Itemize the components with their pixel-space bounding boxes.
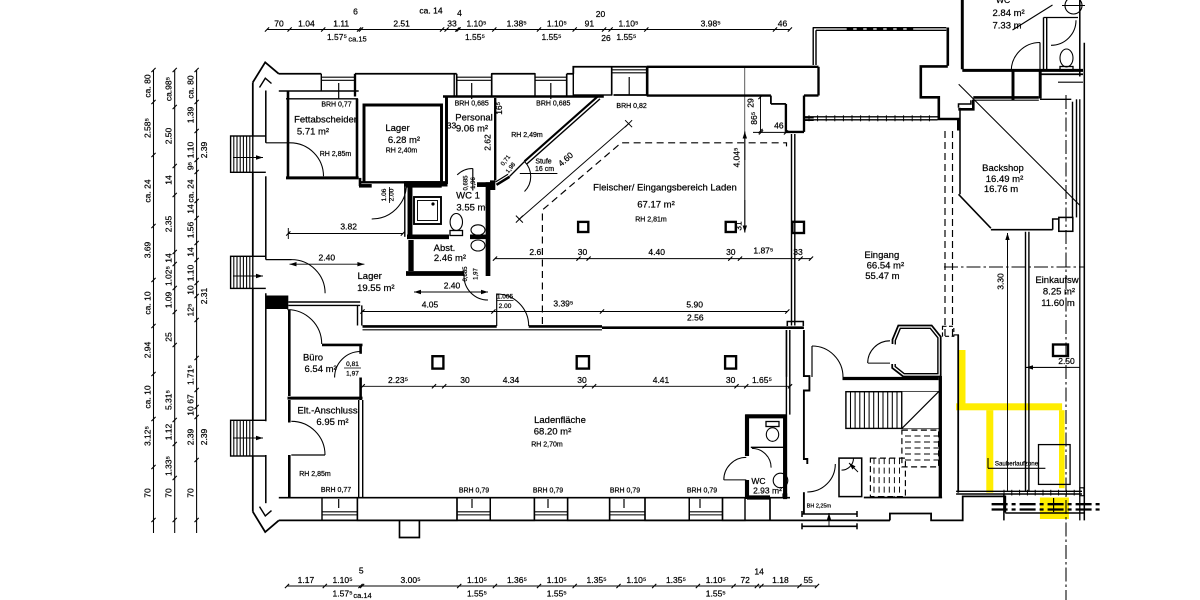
svg-text:72: 72 [740,575,750,585]
top wall inner face (Personal) [443,95,604,98]
Backshop bottom wall [991,229,1053,231]
svg-text:ca. 14: ca. 14 [419,6,442,16]
divider door (1.00/2.00) [496,294,498,327]
vestibule arrow [849,463,858,472]
courtyard right pier [947,28,950,66]
svg-text:3.82: 3.82 [340,222,357,232]
svg-text:86⁵: 86⁵ [749,112,759,125]
diagonal room east wall [494,98,496,180]
svg-text:1.65⁵: 1.65⁵ [752,375,772,385]
WC sink [773,473,788,488]
bay door [868,362,890,364]
svg-text:1.39: 1.39 [186,106,196,123]
dim 2.40 (Abst) [414,291,451,293]
strip wall (double) [1025,232,1027,491]
small column near Einkaufs strip [1053,345,1068,357]
bottom windows glazing [322,511,357,513]
svg-text:1.10: 1.10 [186,264,196,281]
window W0 glazing [321,76,355,78]
dash-dot vertical x1066 [1065,95,1067,600]
svg-text:1.55⁵: 1.55⁵ [465,32,485,42]
bottom dimension chain [287,585,817,587]
vestibule door arc [842,458,854,470]
wall pier solid [267,296,289,310]
Personal door leaf and arc [472,169,474,191]
svg-text:WC: WC [996,0,1010,5]
svg-text:ca. 80: ca. 80 [143,74,153,97]
svg-text:6.28 m²: 6.28 m² [388,135,420,146]
WC 2.84 stall door arc [1051,20,1076,45]
svg-text:Fettabscheider: Fettabscheider [294,115,357,126]
svg-text:9⁵: 9⁵ [186,162,196,170]
Ladenflaeche west wall (double) [358,400,360,498]
svg-text:Sauberlaufzone: Sauberlaufzone [995,461,1039,468]
svg-text:7.33 m: 7.33 m [993,21,1022,32]
svg-text:Lager: Lager [358,271,382,282]
svg-text:1.02⁵: 1.02⁵ [164,266,174,286]
svg-text:Personal: Personal [455,113,493,124]
stair flight left 2 [231,256,253,288]
Abst door [464,276,488,300]
svg-text:67: 67 [186,394,196,404]
outer wall: left facade outer line [252,82,254,136]
svg-text:5: 5 [359,566,364,576]
toilet top right [1060,49,1073,67]
svg-text:2.50: 2.50 [1058,356,1075,366]
svg-text:1,97: 1,97 [474,268,480,280]
door arc left wall 2 (Lager 19.55) [266,259,292,261]
stair hall west pier right edge [804,330,810,464]
svg-text:BRH 0,79: BRH 0,79 [459,488,489,495]
svg-text:BRH 0,79: BRH 0,79 [687,488,717,495]
corridor south wall (double) [288,301,360,303]
courtyard bottom glazed line [805,116,938,118]
chimney protrusion [400,520,420,537]
outer wall: left facade inner line [265,91,267,143]
svg-text:12⁵: 12⁵ [186,304,196,317]
WC 2.93 walls [745,415,749,456]
dim 2.50 [1026,366,1070,368]
corridor wall with Lager door opening [359,184,372,188]
svg-text:RH 2,70m: RH 2,70m [531,442,563,449]
top wall outer face [279,73,322,75]
svg-text:1.04: 1.04 [298,19,315,29]
divider wall end bump [787,322,803,327]
svg-text:BRH 0,685: BRH 0,685 [455,101,489,108]
svg-text:14: 14 [164,253,174,263]
svg-text:BRH 0,685: BRH 0,685 [536,101,570,108]
svg-text:RH 2,49m: RH 2,49m [511,132,543,139]
bottom wall outer face [279,519,890,521]
svg-text:1.11: 1.11 [333,19,349,29]
svg-text:1.10⁵: 1.10⁵ [618,19,638,29]
WC partition [751,446,785,448]
svg-text:ca. 10: ca. 10 [143,291,153,314]
svg-text:BH 2,25m: BH 2,25m [807,504,832,510]
Lager 6.28 room box [364,105,442,182]
svg-text:RH 2,40m: RH 2,40m [386,148,418,155]
svg-text:3.98⁵: 3.98⁵ [701,19,721,29]
Backshop left wall w/ step [959,100,971,108]
vertical dim 4.04 [744,132,746,161]
BRH 0,79 labels [471,499,473,508]
svg-text:1.10⁵: 1.10⁵ [333,575,353,585]
bay dashed square [943,326,954,336]
svg-text:10: 10 [186,285,196,295]
WC 2.84 room bottom wall [962,69,1083,72]
top wall raised section [573,67,646,74]
svg-text:14: 14 [186,204,196,214]
svg-text:91: 91 [585,19,595,29]
vestibule small room [839,458,862,497]
Backshop bottom notch [1053,219,1059,230]
svg-text:1.55⁵: 1.55⁵ [616,32,636,42]
Elt west wall [288,400,291,423]
BRH 0,82 window label C [628,77,630,95]
measure line 4.60 with X ends [519,124,628,219]
connector wall Fettabscheider corner [359,178,362,186]
svg-text:WC: WC [751,476,765,486]
svg-text:20: 20 [596,9,606,19]
svg-text:70: 70 [143,488,153,498]
svg-text:5.71 m²: 5.71 m² [297,127,329,138]
svg-text:6.54 m²: 6.54 m² [304,364,336,375]
svg-text:1.10: 1.10 [186,141,196,158]
dim 86.5 [760,96,762,133]
door arc left wall 1 (Fettabscheider) [266,142,290,144]
svg-text:3.69: 3.69 [143,241,153,258]
Backshop top wall [973,96,1039,99]
svg-text:1.55⁵: 1.55⁵ [467,589,487,599]
left dimension chain 2 [174,70,176,533]
diagonal wall (double line) [525,96,598,161]
WC 2.84 partition wall (double) [1043,18,1045,71]
ticked glazed line SE [1003,490,1005,496]
svg-text:4.34: 4.34 [503,375,520,385]
svg-text:1.55⁵: 1.55⁵ [547,589,567,599]
Sauberlaufzone box [1039,445,1071,485]
SE outline steps [769,498,771,521]
svg-text:1.18: 1.18 [772,575,789,585]
svg-text:2.6: 2.6 [529,247,541,257]
svg-text:2.62: 2.62 [483,134,493,151]
svg-text:ca. 10: ca. 10 [143,385,153,408]
svg-text:1.71⁵: 1.71⁵ [186,365,196,385]
svg-text:70: 70 [186,488,196,498]
svg-text:1.10⁵: 1.10⁵ [706,575,726,585]
column C3 [792,222,804,233]
svg-text:3.39⁵: 3.39⁵ [553,298,573,308]
wall below lower door [803,492,805,514]
window WC glazing (raised) [612,69,647,71]
svg-text:ca. 24: ca. 24 [186,179,196,202]
dashed boundary line [542,143,786,324]
svg-text:3.55 m²: 3.55 m² [456,203,488,214]
svg-text:5.90: 5.90 [686,300,703,310]
outer wall: top-left chamfer [253,62,279,82]
window WA glazing [457,76,492,78]
svg-text:1.56: 1.56 [186,221,196,238]
stairwell top wall [843,377,939,380]
Backshop right wall (double) [1072,102,1074,218]
Sauberlaufzone label [987,458,989,468]
door in diagonal wall [497,177,510,185]
svg-text:ca. 24: ca. 24 [143,179,153,202]
svg-text:1.12: 1.12 [164,423,174,440]
svg-text:14: 14 [164,175,174,185]
top wall right section (hollow outline) [647,66,819,68]
rails dash-dot lines [992,503,1100,505]
Lager 6.28 door arc [372,184,407,219]
Personal west wall [445,97,448,185]
Fleischer east wall [791,134,793,326]
svg-text:RH 2,81m: RH 2,81m [635,217,667,224]
Ladenflaeche west wall upper (double) [357,305,359,325]
svg-text:0,81: 0,81 [346,361,359,368]
svg-text:BRH 0,82: BRH 0,82 [616,103,646,110]
svg-text:2.39: 2.39 [186,428,196,445]
BRH 0,77 bottom window label [338,499,340,508]
right building west wall [961,0,964,69]
svg-text:55.47 m: 55.47 m [865,271,899,282]
svg-text:1,97: 1,97 [346,371,359,378]
svg-text:1.55⁵: 1.55⁵ [706,589,726,599]
WC 2.84 door arc lower [1039,43,1041,72]
svg-text:6.95 m²: 6.95 m² [316,417,348,428]
svg-text:0,685: 0,685 [463,175,469,191]
svg-text:1.35⁵: 1.35⁵ [587,575,607,585]
svg-text:BRH 0,77: BRH 0,77 [321,487,351,494]
yellow highlight: vertical under dash-dot [1059,410,1065,488]
svg-text:Stufe: Stufe [535,159,551,166]
WC1 walls [408,184,413,239]
svg-text:2.93 m²: 2.93 m² [753,486,782,496]
svg-text:33: 33 [447,121,457,131]
svg-text:25: 25 [164,332,174,342]
svg-text:RH 2,85m: RH 2,85m [299,471,331,478]
svg-text:2.35: 2.35 [164,215,174,232]
window WB glazing [535,76,567,78]
svg-text:33: 33 [447,19,457,29]
door bottom-left of stairwell [807,464,835,492]
Buero door from lobby [287,310,321,344]
BRH 0,77 window label [338,83,340,99]
svg-text:1.06: 1.06 [381,188,388,201]
svg-text:1.10⁵: 1.10⁵ [547,575,567,585]
svg-text:0,685: 0,685 [463,266,469,282]
stair upper flight [846,392,939,429]
left dimension chain 1 [153,70,155,533]
WC1 sink [471,225,485,235]
L-pier below WC [1012,71,1015,100]
svg-text:ca.15: ca.15 [348,35,366,44]
svg-text:1.33⁵: 1.33⁵ [164,456,174,476]
Fettabscheider room walls [287,91,290,177]
column C2 [726,222,736,232]
svg-text:ca. 80: ca. 80 [186,75,196,98]
svg-text:14: 14 [186,247,196,257]
door top-left of stairwell [811,346,813,377]
bay outline inner [895,328,938,373]
svg-text:Lager: Lager [385,123,409,134]
svg-text:Einkaufsw: Einkaufsw [1035,275,1078,286]
svg-text:70: 70 [164,488,174,498]
door arc left wall 3 (Elt.-Anschluss) [291,454,325,456]
svg-text:16 cm: 16 cm [535,166,554,173]
raised pier box [573,67,611,95]
chain Fleischer y259 [495,258,811,260]
svg-text:1.35⁵: 1.35⁵ [666,575,686,585]
svg-text:Fleischer/ Eingangsbereich Lad: Fleischer/ Eingangsbereich Laden [593,183,737,194]
courtyard left wall [812,28,814,65]
Buero walls [288,310,291,396]
svg-text:RH 2,85m: RH 2,85m [320,151,352,158]
svg-text:BRH 0,79: BRH 0,79 [533,488,563,495]
svg-text:2.40: 2.40 [444,281,461,291]
svg-text:4: 4 [457,8,462,18]
left dimension chain 3 [196,70,198,533]
chain y311 [363,311,788,313]
top dimension chain [267,29,790,31]
yellow highlight: vertical bar mid [986,410,993,492]
svg-text:1,96: 1,96 [471,177,477,189]
svg-text:55: 55 [803,575,813,585]
svg-text:4.04⁵: 4.04⁵ [732,147,742,167]
bay outline outer [892,326,941,377]
svg-text:8.25 m²: 8.25 m² [1043,287,1075,298]
WC entry door [724,479,747,481]
bottom wall pier boxes [357,498,457,521]
dashed double verticals (Backshop west) [944,131,946,336]
dim 46 [753,131,786,133]
columns row 2 [432,356,443,368]
svg-text:1.57⁵: 1.57⁵ [333,589,353,599]
column C1 [578,222,588,232]
Abst sink [471,240,485,251]
stair flight left 1 [231,136,253,172]
stair hall west pier left edge [786,330,788,377]
svg-text:4.05: 4.05 [422,299,439,309]
stairwell right wall [939,376,942,498]
svg-text:2.50: 2.50 [164,127,174,144]
svg-text:1.005: 1.005 [497,294,514,301]
svg-text:66.54 m²: 66.54 m² [867,261,905,272]
svg-text:BRH 0,79: BRH 0,79 [610,488,640,495]
svg-text:2.23⁵: 2.23⁵ [388,375,408,385]
svg-text:2.00: 2.00 [499,303,512,310]
svg-text:Ladenfläche: Ladenfläche [534,415,586,426]
yellow highlight: vertical line right of stair bay [959,350,966,410]
WC1 shower [414,197,441,224]
svg-text:2.46 m²: 2.46 m² [434,253,466,264]
svg-text:1.17: 1.17 [298,575,315,585]
svg-text:30: 30 [578,247,588,257]
WC toilet [766,428,778,442]
svg-text:11.60 m: 11.60 m [1041,298,1075,309]
yellow highlight: horizontal bar [956,403,1062,410]
circle column symbol [1065,0,1082,14]
svg-text:WC 1: WC 1 [456,191,480,202]
entry threshold [802,513,857,515]
stair cut diagonal [902,392,939,429]
dim 2.40 (Lager19.55) [290,263,326,265]
svg-text:ca.98⁵: ca.98⁵ [164,77,174,101]
BRH 0,685 window label A [471,83,473,99]
dim 3.30 vertical [1007,233,1009,260]
svg-text:Elt.-Anschluss: Elt.-Anschluss [297,406,357,417]
svg-text:Backshop: Backshop [982,163,1024,174]
svg-text:BRH 0,77: BRH 0,77 [321,102,351,109]
svg-text:30: 30 [460,375,470,385]
svg-text:29: 29 [746,98,756,108]
right facade top [1079,0,1081,77]
Backshop chamfer [959,194,991,228]
dash-dot horizontal y267 [944,266,1085,268]
WC inner door [752,448,771,467]
wall down from glazed line [1003,494,1005,520]
svg-text:1.10⁵: 1.10⁵ [547,19,567,29]
svg-text:1.87⁵: 1.87⁵ [753,246,773,256]
svg-text:2.58⁵: 2.58⁵ [143,118,153,138]
svg-text:46: 46 [778,19,788,29]
svg-text:9.06 m²: 9.06 m² [456,124,488,135]
svg-text:Eingang: Eingang [864,250,899,261]
Buero door east [335,352,361,378]
svg-text:2.40: 2.40 [319,253,336,263]
Eingang east wall [957,335,959,493]
svg-text:31: 31 [734,221,744,231]
svg-text:2.84 m²: 2.84 m² [993,8,1025,19]
stairwell bottom wall [864,497,942,499]
outer wall: bottom-left chamfer [253,512,279,532]
WC1 toilet [450,214,462,231]
top wall inner face left [279,90,359,92]
svg-text:6: 6 [353,7,358,17]
svg-text:1.55⁵: 1.55⁵ [541,32,561,42]
svg-text:1.38⁵: 1.38⁵ [507,19,527,29]
svg-text:Büro: Büro [303,353,323,364]
double line wall to courtyard [805,117,814,119]
Backshop diagonal [959,84,1080,205]
svg-text:3.12⁵: 3.12⁵ [143,426,153,446]
svg-text:67.17 m²: 67.17 m² [637,200,675,211]
svg-text:30: 30 [726,375,736,385]
svg-text:1.10⁵: 1.10⁵ [626,575,646,585]
svg-text:19.55 m²: 19.55 m² [357,283,395,294]
svg-text:2.51: 2.51 [393,19,410,29]
svg-text:3.00⁵: 3.00⁵ [401,575,421,585]
svg-text:46: 46 [774,121,784,131]
bottom wall inner face [279,497,790,499]
svg-text:30: 30 [577,375,587,385]
stair flight left 3 [231,420,253,456]
wall pier at Personal corner [490,180,495,190]
svg-text:1.10⁵: 1.10⁵ [467,575,487,585]
svg-text:2.56: 2.56 [687,312,704,322]
BRH 0,685 window label B [550,83,552,99]
dim 3.82 [288,233,403,235]
svg-text:3.30: 3.30 [996,273,1006,290]
Ladenflaeche east wall [785,330,787,415]
svg-text:26: 26 [601,33,611,43]
svg-text:1.09: 1.09 [164,291,174,308]
stair dashed flight right [902,430,939,467]
svg-text:30: 30 [726,247,736,257]
svg-text:1.57⁵: 1.57⁵ [327,32,347,42]
svg-text:68.20 m²: 68.20 m² [534,427,572,438]
Abst walls [408,240,413,271]
svg-text:4.40: 4.40 [648,247,665,257]
